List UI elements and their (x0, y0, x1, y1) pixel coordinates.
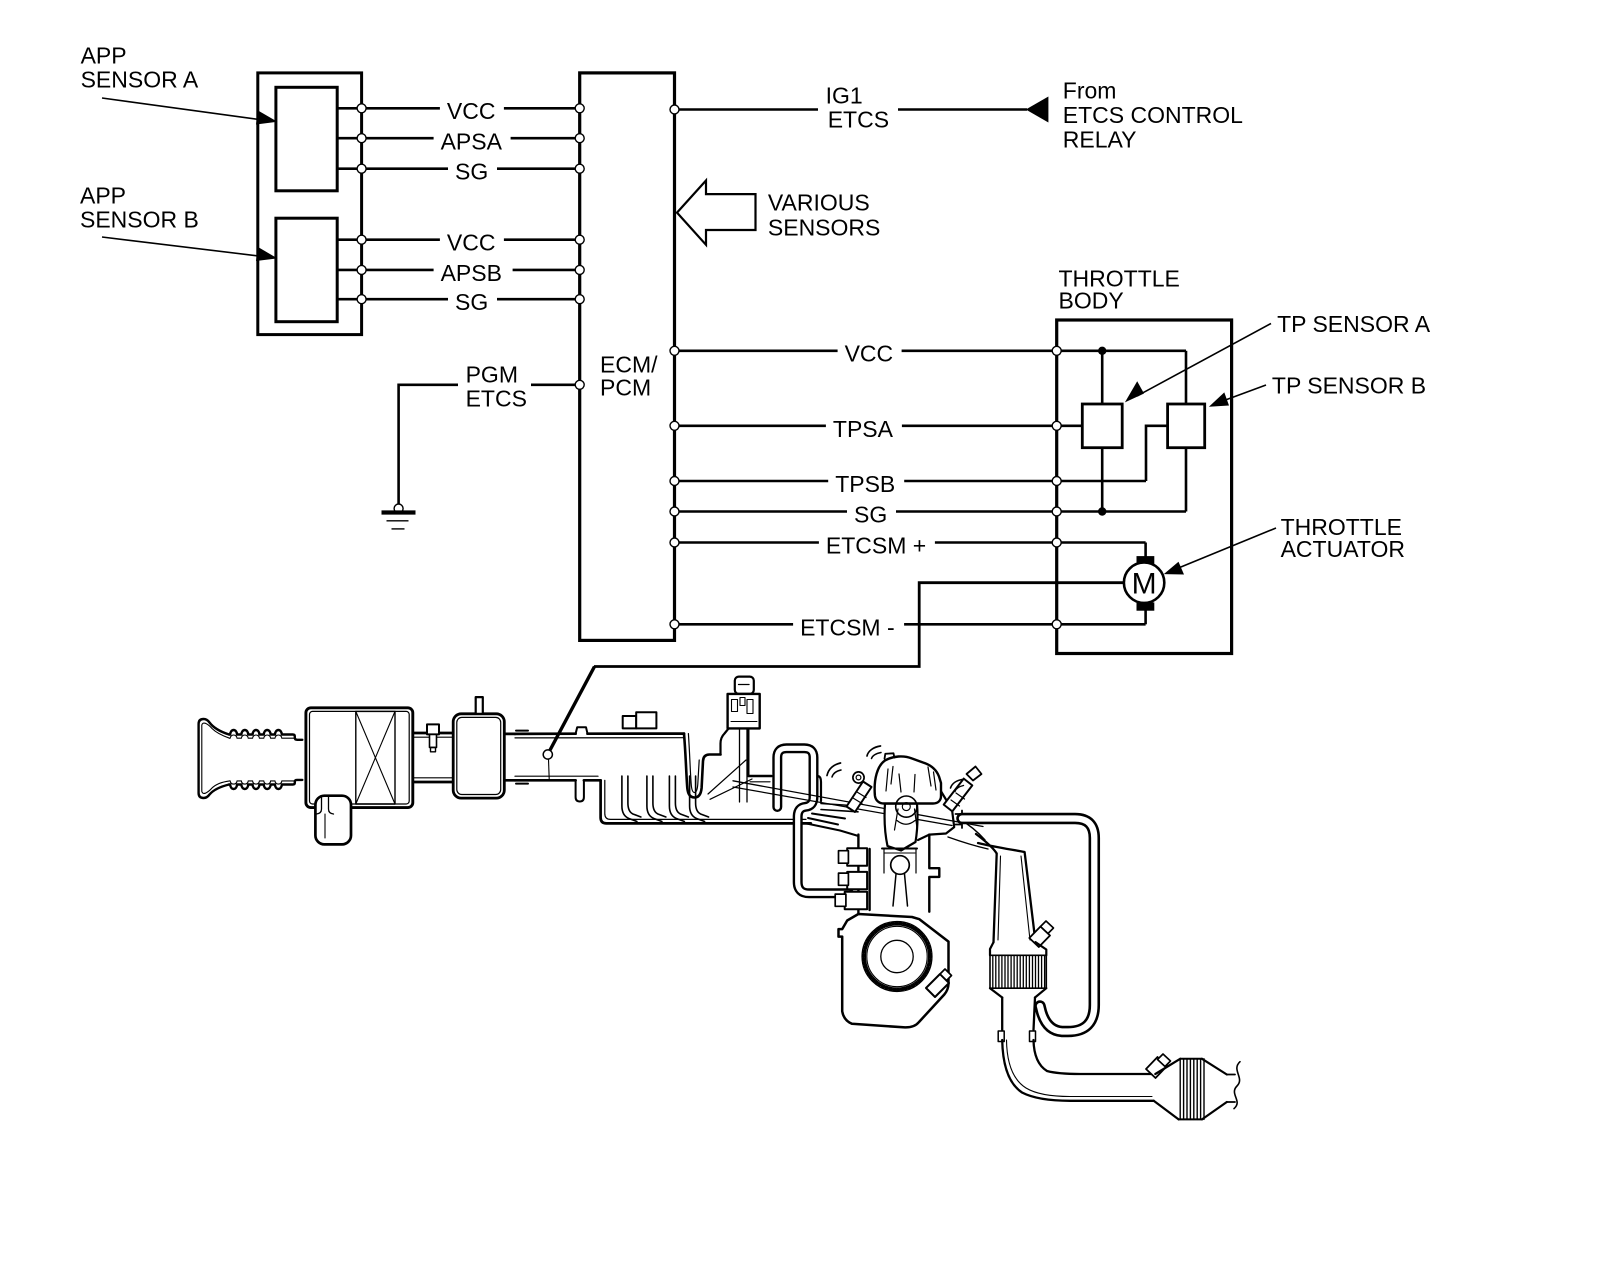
exhaust side step (918, 788, 954, 840)
wire motor to throttle body drawing (594, 583, 1124, 667)
wire TPSB (675, 480, 1147, 483)
intake duct to throttle body (515, 732, 684, 735)
svg-text:VARIOUS: VARIOUS (768, 190, 870, 216)
pin circle ECM side VCC (sensor B) (575, 235, 584, 244)
catalytic converter O2 sensor (1146, 1054, 1171, 1078)
leader arrow throttle actuator (1164, 528, 1276, 575)
engine block (858, 835, 869, 914)
wire VCC to TP sensor A (vertical) (1101, 351, 1104, 404)
pin circle ECM side APSA (575, 134, 584, 143)
label VCC (838, 337, 902, 366)
wire ETCSM+ down to motor (1144, 543, 1147, 558)
svg-text:BODY: BODY (1059, 287, 1124, 313)
svg-text:IG1: IG1 (826, 82, 863, 108)
svg-text:TPSB: TPSB (835, 471, 895, 497)
pin circle TB VCC (1052, 346, 1061, 355)
wire ETCSM- (675, 623, 1146, 626)
valve train details (886, 767, 936, 831)
ECM/PCM box U1 (580, 73, 675, 641)
pin circle ECM side SG (sensor B) (575, 295, 584, 304)
crank position sensor (926, 969, 952, 997)
pin circle APP side APSB (357, 265, 366, 274)
junction dot VCC (1098, 347, 1106, 355)
node circle throttle body location (543, 750, 552, 759)
wire SG from TP sensor A bottom (1101, 448, 1104, 512)
svg-text:ETCS: ETCS (828, 107, 889, 133)
svg-text:APSA: APSA (441, 129, 503, 155)
wire SG (sensor A) (337, 167, 580, 170)
svg-text:TPSA: TPSA (833, 416, 894, 442)
svg-text:PGM: PGM (466, 362, 518, 388)
pin circle ECM side APSB (575, 265, 584, 274)
air cleaner drain pocket (315, 796, 351, 845)
duct clamp bolt (427, 724, 439, 751)
pin circle ECM SG (TB) (670, 507, 679, 516)
downpipe O2 sensor (1029, 921, 1053, 947)
pin circle ECM ETCSM+ (670, 538, 679, 547)
sensor connector blocks (839, 848, 868, 866)
label TPSA (826, 412, 902, 442)
leader arrow TP sensor A (1125, 324, 1271, 403)
pin circle APP side APSA (357, 134, 366, 143)
motor brush top (1137, 556, 1155, 564)
wire SG (sensor B) (337, 298, 580, 301)
wire VCC (sensor A) (337, 107, 580, 110)
pin circle TB ETCSM+ (1052, 538, 1061, 547)
svg-text:APP: APP (80, 183, 126, 209)
spark plug wires (827, 763, 841, 776)
pin circle ECM ETCSM- (670, 620, 679, 629)
pin circle ECM side VCC (sensor A) (575, 104, 584, 113)
purge control solenoid valve (728, 677, 760, 729)
cylinder head neck (885, 804, 918, 851)
purge hose loop (777, 748, 849, 893)
manifold runners (622, 776, 637, 822)
resonator chamber (453, 714, 504, 798)
camshaft circle (896, 796, 917, 817)
svg-text:APP: APP (81, 43, 127, 69)
pin circle ECM TPSA (670, 421, 679, 430)
flange ticks (516, 731, 528, 784)
duct bump (576, 727, 588, 734)
motor brush bottom (1137, 602, 1155, 610)
block arrow VARIOUS SENSORS (677, 181, 756, 245)
THROTTLE BODY box (1057, 320, 1232, 654)
pin circle APP side VCC (sensor A) (357, 104, 366, 113)
pipe below flex (1002, 998, 1035, 1031)
fuel and vacuum lines (733, 781, 983, 827)
junction dot SG (1098, 507, 1106, 515)
svg-text:TP SENSOR A: TP SENSOR A (1277, 311, 1431, 337)
svg-text:SG: SG (455, 159, 488, 185)
valve cover tab (885, 753, 895, 759)
svg-text:SG: SG (455, 289, 488, 315)
cylinder head and valve cover (875, 756, 941, 803)
throttle bore lines (708, 760, 752, 799)
flywheel ring gear (862, 922, 932, 992)
label VCC (VCC (sensor B)) (440, 226, 504, 255)
duct air cleaner to resonator (413, 733, 453, 782)
duct hanging tab (576, 780, 584, 801)
label SG (SG (sensor B)) (448, 286, 497, 316)
exhaust pipe break line (1227, 1075, 1235, 1103)
wire VCC to TP sensor B (vertical) (1185, 351, 1188, 404)
pin circle ECM PGM (575, 380, 584, 389)
label ETCSM + (819, 529, 935, 559)
label APP SENSOR A (81, 43, 199, 93)
intake manifold plenum (601, 780, 811, 823)
label TPSB (828, 468, 904, 498)
wire SG from TP sensor B bottom (1185, 448, 1188, 512)
wire VCC (TB) (675, 349, 1187, 352)
label ETCSM - (793, 611, 904, 641)
pin circle ECM VCC (TB) (670, 346, 679, 355)
resonator mounting tab (476, 697, 483, 714)
wire IG1 ETCS (675, 108, 1028, 111)
label THROTTLE BODY (1059, 266, 1180, 314)
pin circle ECM IG1 (670, 105, 679, 114)
catalytic converter (1154, 1059, 1181, 1120)
svg-text:SENSOR B: SENSOR B (80, 207, 199, 233)
svg-text:M: M (1132, 568, 1157, 601)
pin circle APP side SG (sensor A) (357, 164, 366, 173)
svg-text:ETCSM -: ETCSM - (800, 614, 895, 640)
pin circle ECM side SG (sensor A) (575, 164, 584, 173)
air cleaner box (306, 708, 413, 808)
label From ETCS CONTROL RELAY (1063, 78, 1243, 153)
intake flange step to hose (956, 811, 963, 829)
intake air inlet trumpet (199, 719, 229, 798)
air suction hose (962, 819, 1094, 1032)
label THROTTLE ACTUATOR (1281, 514, 1405, 562)
pin circle ECM TPSB (670, 477, 679, 486)
TP sensor B box (1168, 404, 1205, 448)
flex pipe shoulders (990, 942, 1046, 997)
label ECM/PCM (600, 352, 658, 401)
leader arrow TP sensor B (1209, 385, 1266, 407)
pin circle TB SG (1052, 507, 1061, 516)
pin circle APP side VCC (sensor B) (357, 235, 366, 244)
APP sensor A inner box (276, 87, 337, 191)
wire PGM ETCS (399, 385, 580, 506)
flex pipe hatch (990, 955, 1046, 988)
exhaust elbow to catalytic converter (1002, 1040, 1153, 1101)
label VARIOUS SENSORS (768, 190, 880, 241)
wire ETCSM- up to motor (1144, 611, 1147, 625)
svg-text:SENSORS: SENSORS (768, 214, 880, 240)
svg-text:ECM/: ECM/ (600, 352, 658, 378)
pin circle TB TPSA (1052, 421, 1061, 430)
APP sensor assembly outer box (258, 73, 362, 335)
throttle body neck (684, 734, 721, 798)
leader arrow to APP sensor B (102, 237, 277, 261)
throttle actuator motor M (1124, 563, 1164, 603)
svg-text:SG: SG (854, 502, 887, 528)
wire ETCSM+ (675, 541, 1146, 544)
TP sensor A box (1082, 404, 1122, 448)
pin circle APP side SG (sensor B) (357, 295, 366, 304)
wire TPSA (675, 424, 1083, 427)
svg-text:VCC: VCC (845, 341, 894, 367)
svg-text:VCC: VCC (447, 98, 496, 124)
label VCC (VCC (sensor A)) (440, 95, 504, 124)
label APSB (APSB) (434, 256, 513, 286)
arrowhead from ETCS control relay (1026, 97, 1049, 123)
svg-text:APSB: APSB (441, 260, 502, 286)
wire TPSB step up (1146, 426, 1168, 481)
MAP sensor (623, 712, 657, 728)
exhaust collector (948, 818, 988, 849)
throttle valve neck (721, 729, 749, 776)
wire APSA (337, 137, 580, 140)
leader diagonal to throttle body location (550, 667, 595, 751)
svg-text:VCC: VCC (447, 229, 496, 255)
label SG (SG (sensor A)) (448, 155, 497, 184)
pin circle TB TPSB (1052, 477, 1061, 486)
label SG (847, 498, 896, 528)
ignition coil right (944, 767, 982, 812)
svg-text:ACTUATOR: ACTUATOR (1281, 536, 1405, 562)
ground symbol (382, 504, 416, 529)
wire VCC (sensor B) (337, 238, 580, 241)
wire APSB (337, 269, 580, 272)
svg-text:PCM: PCM (600, 375, 651, 401)
label IG1 ETCS (818, 82, 898, 132)
wire SG (TB) (675, 510, 1187, 513)
svg-text:ETCS CONTROL: ETCS CONTROL (1063, 102, 1243, 128)
duct resonator outlet (504, 734, 515, 780)
duct bottom edge (515, 779, 601, 782)
air filter element (356, 711, 395, 804)
crankcase and flywheel housing (839, 914, 949, 1027)
intake bellows duct (229, 730, 302, 740)
label PGM ETCS (458, 361, 531, 412)
svg-text:From: From (1063, 78, 1117, 104)
leader arrow to APP sensor A (102, 98, 277, 125)
label APSA (APSA) (434, 125, 511, 155)
pin circle TB ETCSM- (1052, 620, 1061, 629)
svg-text:ETCS: ETCS (466, 386, 527, 412)
svg-text:RELAY: RELAY (1063, 126, 1137, 152)
purge valve funnel (740, 728, 748, 802)
svg-text:SENSOR A: SENSOR A (81, 67, 199, 93)
svg-text:ETCSM +: ETCSM + (826, 533, 926, 559)
label APP SENSOR B (80, 183, 199, 233)
manifold step and runner to head (818, 776, 821, 801)
ignition coil left (847, 772, 872, 812)
piston and rod (882, 849, 917, 907)
APP sensor B inner box (276, 218, 337, 322)
svg-text:TP SENSOR B: TP SENSOR B (1272, 373, 1426, 399)
